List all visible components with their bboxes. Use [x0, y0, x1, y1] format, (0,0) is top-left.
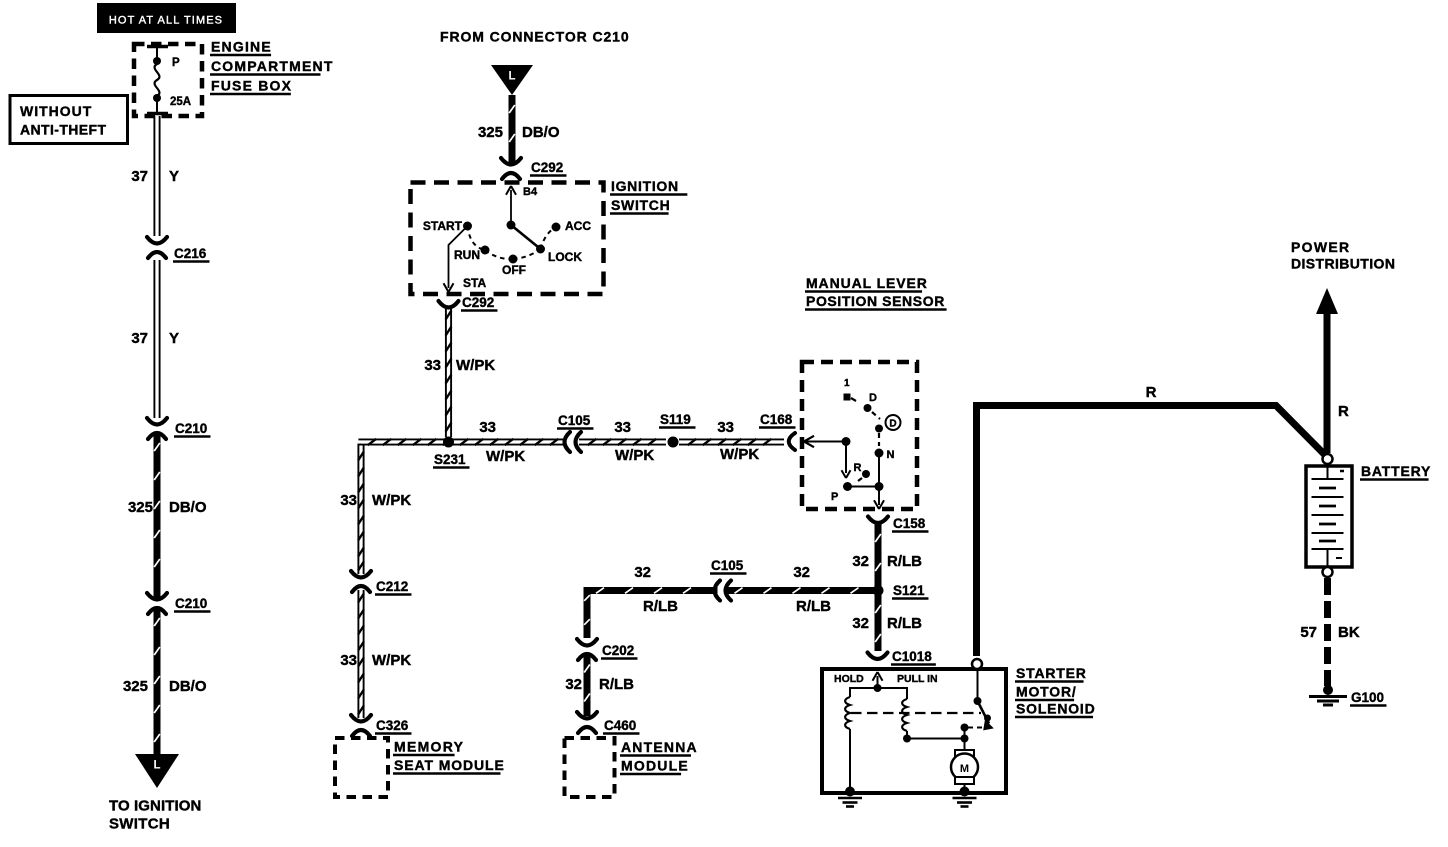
svg-text:37: 37 [131, 168, 148, 185]
connector C292 [501, 158, 521, 179]
svg-text:33: 33 [717, 419, 734, 436]
contact START [463, 222, 472, 231]
wire 325 DB/O to C292 [509, 95, 515, 165]
svg-text:33: 33 [479, 419, 496, 436]
connector C292 below switch [439, 301, 459, 308]
connector C158 [868, 517, 888, 524]
position R contact [862, 470, 870, 478]
contact RUN [481, 246, 490, 255]
svg-text:R/LB: R/LB [887, 615, 922, 632]
solenoid linkage dashed [851, 712, 981, 714]
svg-text:325: 325 [123, 678, 148, 695]
battery U1 [1306, 466, 1352, 567]
sensor common bottom wire [848, 486, 880, 488]
svg-text:W/PK: W/PK [486, 448, 525, 465]
svg-text:ACC: ACC [565, 219, 591, 233]
svg-text:32: 32 [565, 676, 582, 693]
sensor output wire with arrow to C168 [806, 441, 846, 443]
battery stud circle [972, 659, 982, 669]
svg-text:C168: C168 [760, 412, 793, 427]
sensor wiper node [842, 437, 851, 446]
wire to pull in coil [878, 688, 908, 699]
svg-text:25A: 25A [170, 96, 191, 108]
contact OFF [509, 255, 518, 264]
wire 32 R/LB C202 to C460 [584, 655, 590, 717]
starter motor solenoid box [822, 669, 1006, 793]
pull in coil L2 [902, 699, 907, 731]
svg-text:TO IGNITION: TO IGNITION [109, 798, 202, 815]
svg-text:R: R [1338, 403, 1349, 420]
svg-text:C202: C202 [602, 643, 634, 658]
svg-text:IGNITION: IGNITION [611, 178, 679, 194]
solenoid feed entry arrow [877, 676, 879, 688]
svg-text:W/PK: W/PK [615, 447, 654, 464]
power distribution arrow [1324, 310, 1331, 453]
engine compartment fuse box [134, 44, 202, 116]
svg-text:STARTER: STARTER [1016, 665, 1087, 681]
connector C210 second [147, 593, 167, 614]
switch blade [978, 701, 990, 724]
position N contact [875, 449, 884, 458]
pin B4 entry arrow [510, 190, 512, 225]
svg-text:POWER: POWER [1291, 239, 1350, 255]
svg-text:MEMORY: MEMORY [394, 739, 464, 755]
svg-text:C105: C105 [711, 558, 744, 573]
hold coil L1 [845, 697, 850, 729]
svg-text:C292: C292 [462, 295, 494, 310]
svg-text:MODULE: MODULE [621, 758, 689, 774]
ground starter motor [953, 787, 977, 807]
svg-text:FROM CONNECTOR C210: FROM CONNECTOR C210 [440, 29, 630, 45]
svg-text:DISTRIBUTION: DISTRIBUTION [1291, 256, 1395, 272]
switch pivot [974, 697, 982, 705]
contact below circled D [875, 425, 883, 433]
svg-text:C210: C210 [175, 421, 207, 436]
svg-text:R/LB: R/LB [599, 676, 634, 693]
svg-text:WITHOUT: WITHOUT [20, 103, 92, 119]
manual lever position sensor box [802, 362, 917, 509]
ground hold coil [838, 787, 862, 807]
svg-text:HOLD: HOLD [834, 673, 864, 685]
motor node [961, 735, 969, 743]
svg-text:FUSE BOX: FUSE BOX [211, 78, 292, 94]
svg-text:OFF: OFF [502, 263, 526, 277]
svg-text:P: P [172, 57, 180, 69]
svg-text:ENGINE: ENGINE [211, 39, 272, 55]
svg-text:C212: C212 [376, 579, 408, 594]
position mark near 1 [844, 394, 851, 401]
antenna module box [565, 738, 615, 797]
connector C460 [577, 712, 597, 733]
wire START to STA output [449, 226, 468, 288]
switch blade to LOCK [511, 225, 541, 249]
svg-text:W/PK: W/PK [720, 446, 759, 463]
svg-text:C292: C292 [531, 160, 563, 175]
svg-text:M: M [960, 763, 969, 775]
svg-text:C326: C326 [376, 718, 409, 733]
svg-text:L: L [153, 760, 160, 772]
svg-text:C216: C216 [174, 246, 207, 261]
connector C168 [789, 433, 795, 450]
svg-text:BK: BK [1338, 624, 1360, 641]
svg-text:57: 57 [1300, 624, 1317, 641]
wire 32 R/LB C158 to S121 [875, 524, 881, 586]
svg-text:ANTI-THEFT: ANTI-THEFT [20, 122, 106, 138]
svg-text:DB/O: DB/O [169, 678, 207, 695]
wire R battery to starter diagonal [977, 406, 1328, 657]
connector C326 [351, 715, 371, 736]
wire 33 W/PK C105 to S119 [579, 439, 666, 444]
connector C216 [147, 237, 167, 258]
wire 32 R/LB S121 to C105 [726, 588, 875, 594]
svg-text:L: L [508, 71, 515, 83]
svg-text:START: START [423, 219, 463, 233]
detent arc dashed [468, 226, 557, 259]
svg-text:W/PK: W/PK [456, 357, 495, 374]
sensor N to bottom wire [878, 453, 880, 487]
battery negative terminal [1323, 567, 1333, 577]
svg-text:POSITION SENSOR: POSITION SENSOR [806, 293, 945, 309]
splice S119 [668, 437, 679, 448]
svg-text:MANUAL LEVER: MANUAL LEVER [806, 275, 928, 291]
wire 33 W/PK horizontal run S231 left corner [358, 439, 564, 444]
battery positive terminal [1323, 454, 1333, 464]
svg-text:DB/O: DB/O [522, 124, 560, 141]
svg-text:MOTOR/: MOTOR/ [1016, 684, 1077, 700]
wire 33 W/PK branch down to C212 [358, 445, 361, 574]
svg-text:R/LB: R/LB [796, 598, 831, 615]
svg-text:33: 33 [614, 419, 631, 436]
svg-text:32: 32 [852, 615, 869, 632]
starter motor M [951, 750, 978, 791]
svg-text:SOLENOID: SOLENOID [1016, 701, 1096, 717]
wire 33 W/PK from C292 to S231 [446, 307, 452, 437]
wire 32 R/LB C105 to corner [587, 588, 718, 594]
wire 325 DB/O from C210 to ignition switch feed [154, 608, 160, 754]
wiper stem with arrow [845, 442, 847, 474]
wire 57 BK battery to ground [1324, 578, 1331, 686]
svg-text:LOCK: LOCK [548, 250, 582, 264]
position P contact [843, 482, 852, 491]
svg-text:DB/O: DB/O [169, 499, 207, 516]
switch pivot node [507, 221, 516, 230]
svg-text:HOT AT ALL TIMES: HOT AT ALL TIMES [109, 15, 223, 27]
svg-text:W/PK: W/PK [372, 652, 411, 669]
svg-text:C1018: C1018 [892, 649, 932, 664]
switch contact [961, 724, 969, 732]
svg-text:SWITCH: SWITCH [109, 816, 170, 833]
fuse F 25A [147, 47, 168, 114]
svg-text:BATTERY: BATTERY [1361, 463, 1431, 479]
svg-text:D: D [889, 419, 896, 430]
svg-text:SEAT MODULE: SEAT MODULE [394, 757, 505, 773]
off-page arrow from connector C210 [491, 65, 533, 95]
svg-text:R: R [854, 462, 862, 474]
svg-text:S121: S121 [893, 583, 925, 598]
svg-text:B4: B4 [523, 186, 538, 198]
memory seat module box [335, 738, 388, 797]
svg-text:37: 37 [131, 330, 148, 347]
wire 37 Y from C216 to C210 [154, 260, 159, 418]
svg-text:32: 32 [852, 553, 869, 570]
svg-text:RUN: RUN [454, 248, 480, 262]
wire to hold coil [850, 688, 878, 697]
wire 33 W/PK C212 to C326 [358, 590, 364, 718]
svg-text:33: 33 [340, 492, 357, 509]
sensor exit wire with arrow [878, 487, 880, 506]
svg-text:PULL IN: PULL IN [897, 673, 938, 685]
without anti-theft note box [10, 96, 128, 144]
svg-text:R/LB: R/LB [643, 598, 678, 615]
svg-text:C105: C105 [558, 413, 591, 428]
svg-text:C460: C460 [604, 718, 636, 733]
svg-text:1: 1 [844, 378, 850, 389]
solenoid feed node [874, 684, 882, 692]
wire 32 R/LB corner down to C202 [587, 591, 591, 639]
svg-text:SWITCH: SWITCH [611, 197, 670, 213]
connector C212 [351, 571, 371, 592]
svg-text:325: 325 [128, 499, 153, 516]
wire 37 Y from fuse box to C216 [154, 116, 159, 236]
svg-text:G100: G100 [1351, 690, 1384, 705]
svg-text:W/PK: W/PK [372, 492, 411, 509]
svg-text:STA: STA [463, 276, 486, 290]
splice S231 [443, 437, 454, 448]
connector C105 second [715, 581, 732, 601]
svg-text:Y: Y [169, 168, 179, 185]
position D contact [864, 404, 872, 412]
svg-text:ANTENNA: ANTENNA [621, 739, 698, 755]
svg-text:R: R [1146, 384, 1157, 401]
svg-text:Y: Y [169, 330, 179, 347]
connector C210 [147, 418, 167, 439]
svg-text:R/LB: R/LB [887, 553, 922, 570]
hold coil ground wire [849, 729, 851, 791]
wire 32 R/LB S121 to C1018 [875, 595, 881, 651]
off-page arrow to ignition switch [135, 754, 179, 788]
svg-text:325: 325 [478, 124, 503, 141]
connector C1018 [868, 653, 888, 660]
svg-text:D: D [869, 392, 877, 404]
connector C202 [577, 639, 597, 660]
dash to N [878, 433, 880, 446]
ground G100 [1309, 685, 1347, 705]
hot-at-all-times banner [97, 3, 236, 33]
contact ACC [552, 223, 561, 232]
splice S121 [873, 585, 884, 596]
wire 33 W/PK S119 to C168 [679, 439, 784, 444]
svg-text:S231: S231 [434, 452, 466, 467]
svg-text:N: N [887, 449, 895, 461]
connector C105 [565, 432, 582, 452]
circled D drive position [886, 415, 901, 430]
svg-text:32: 32 [634, 564, 651, 581]
svg-text:33: 33 [424, 357, 441, 374]
switch feed wire [977, 669, 979, 701]
svg-text:S119: S119 [660, 412, 691, 427]
svg-text:C158: C158 [893, 516, 926, 531]
svg-text:P: P [831, 491, 838, 503]
contact LOCK [536, 245, 545, 254]
svg-text:33: 33 [340, 652, 357, 669]
ignition switch box [411, 183, 604, 295]
wire 325 DB/O from C210 to C210 [154, 433, 160, 600]
pull in coil to motor node [907, 731, 965, 739]
svg-text:COMPARTMENT: COMPARTMENT [211, 58, 334, 74]
svg-text:C210: C210 [175, 596, 207, 611]
svg-text:32: 32 [793, 564, 810, 581]
